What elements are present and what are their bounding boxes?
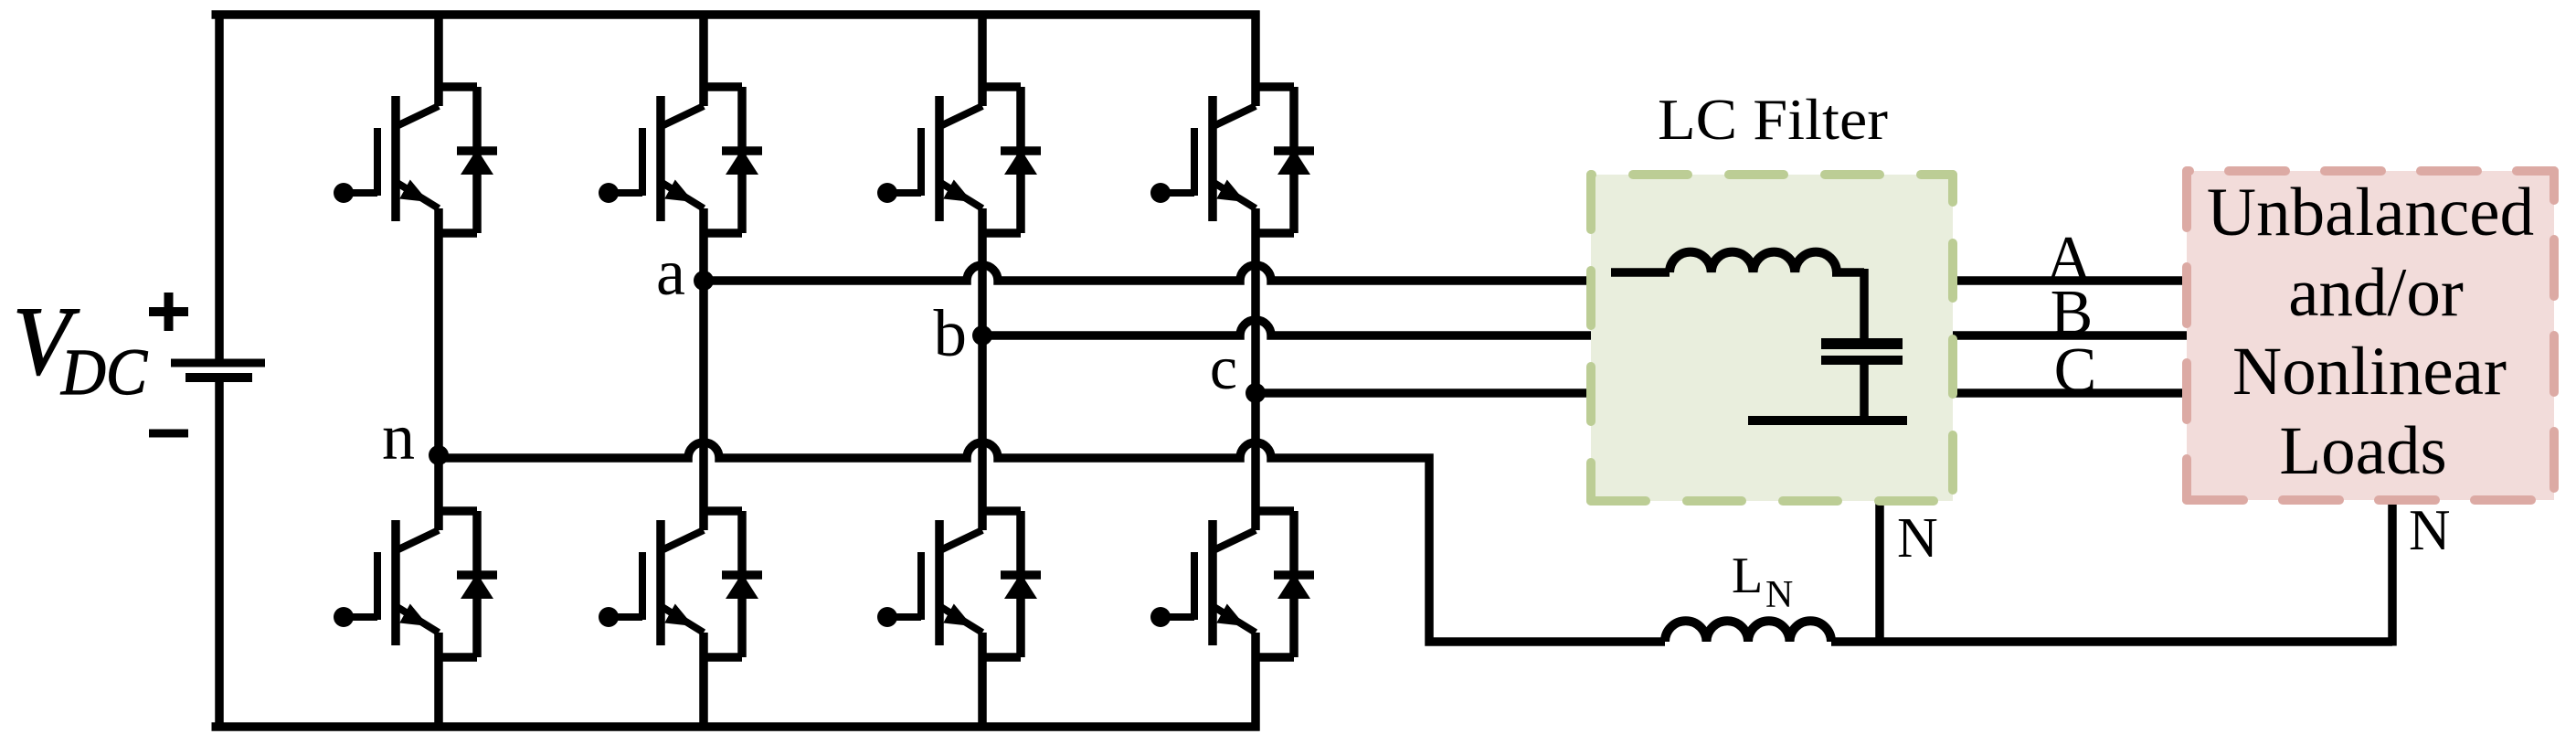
wire: leg 4 emitter drop to bottom bus	[1251, 633, 1260, 731]
svg-text:C: C	[2054, 335, 2097, 406]
diode triangle	[1277, 149, 1310, 175]
collector diagonal	[942, 106, 982, 125]
diode triangle	[461, 573, 493, 599]
node n junction dot	[429, 445, 449, 465]
IGBT switch leg 2 upper with anti-parallel diode	[599, 87, 762, 233]
anti-parallel diode branch	[1256, 87, 1294, 233]
gate bar	[374, 552, 381, 620]
diode cathode bar	[1274, 146, 1314, 155]
svg-text:LC Filter: LC Filter	[1658, 88, 1888, 152]
diode cathode bar	[1274, 570, 1314, 580]
gate lead and terminal dot	[344, 189, 377, 197]
emitter diagonal with arrow	[661, 606, 704, 633]
svg-text:DC: DC	[60, 335, 148, 409]
diode cathode bar	[457, 146, 497, 155]
gate bar	[917, 552, 925, 620]
wire: capacitor to neutral bar	[1860, 364, 1869, 420]
diode triangle	[1004, 573, 1037, 599]
load box fill	[2187, 171, 2554, 500]
wire: leg 4 collector drop from top bus	[1251, 11, 1260, 107]
svg-text:a: a	[656, 236, 685, 309]
wire: leg 3 collector drop from top bus	[978, 11, 987, 107]
emitter diagonal with arrow	[396, 606, 439, 633]
wire: leg 2 midpoint wire between upper and lower IGBT	[699, 208, 708, 530]
wire: phase C stub between LC filter and load box	[1950, 388, 2190, 398]
svg-text:L: L	[1732, 548, 1763, 604]
body bar	[1208, 520, 1217, 645]
body bar	[391, 520, 400, 645]
wire: leg 2 emitter drop to bottom bus	[699, 633, 708, 731]
battery VDC: short negative plate	[186, 373, 252, 382]
wire: leg 3 midpoint wire between upper and lower IGBT	[978, 208, 987, 530]
svg-text:and/or: and/or	[2288, 255, 2464, 331]
svg-text:N: N	[1897, 507, 1938, 569]
wire: filter inductor input lead	[1611, 268, 1670, 277]
filter inductor coil	[1670, 252, 1837, 272]
svg-text:Nonlinear: Nonlinear	[2232, 334, 2507, 410]
gate bar	[639, 128, 646, 196]
body bar	[656, 520, 665, 645]
inductor LN coil	[1665, 621, 1831, 642]
emitter diagonal with arrow	[396, 182, 439, 208]
collector diagonal	[398, 106, 439, 125]
svg-text:c: c	[1210, 333, 1237, 402]
wire: left rail from top bus down to battery positive plate	[215, 11, 224, 360]
diode triangle	[461, 149, 493, 175]
body bar	[391, 96, 400, 221]
gate lead and terminal dot	[609, 613, 642, 621]
wire: bottom DC bus	[212, 722, 1260, 731]
diode cathode bar	[722, 146, 762, 155]
wire: top DC bus	[212, 10, 1260, 19]
emitter diagonal with arrow	[1213, 182, 1256, 208]
svg-text:N: N	[1765, 574, 1793, 616]
body bar	[935, 96, 944, 221]
svg-text:Unbalanced: Unbalanced	[2207, 175, 2534, 250]
body bar	[1208, 96, 1217, 221]
wire: phase B stub between LC filter and load box	[1950, 331, 2190, 340]
collector diagonal	[1215, 106, 1256, 125]
node c junction dot	[1246, 383, 1266, 403]
diode triangle	[1004, 149, 1037, 175]
emitter diagonal with arrow	[939, 182, 982, 208]
anti-parallel diode branch	[982, 87, 1021, 233]
node b junction dot	[972, 325, 992, 346]
wire: leg 1 midpoint wire between upper and lower IGBT	[434, 208, 443, 530]
wire: left rail from battery negative plate down to bottom bus	[215, 381, 224, 731]
gate bar	[1191, 128, 1198, 196]
IGBT switch leg 4 upper with anti-parallel diode	[1150, 87, 1314, 233]
gate bar	[374, 128, 381, 196]
node a junction dot	[694, 271, 714, 291]
anti-parallel diode branch	[439, 87, 477, 233]
gate lead and terminal dot	[887, 189, 921, 197]
wire: leg 4 midpoint wire between upper and lower IGBT	[1251, 208, 1260, 530]
IGBT switch leg 3 upper with anti-parallel diode	[877, 87, 1041, 233]
IGBT switch leg 1 lower with anti-parallel diode	[334, 511, 497, 657]
wire: phase c line from node c to LC filter	[1256, 388, 1595, 398]
battery VDC: long positive plate	[171, 359, 265, 367]
battery polarity minus sign	[149, 430, 188, 438]
gate lead and terminal dot	[887, 613, 921, 621]
wire: filter inductor output lead down to capacitor	[1832, 269, 1864, 339]
gate bar	[639, 552, 646, 620]
wire: LC filter neutral N drop	[1875, 498, 1884, 646]
wire: phase a line from node a to LC filter (hops over legs 3 and 4)	[704, 265, 1595, 281]
svg-text:N: N	[2409, 498, 2451, 562]
collector diagonal	[663, 530, 704, 549]
wire: phase b line from node b to LC filter (hops over leg 4)	[982, 320, 1595, 335]
anti-parallel diode branch	[439, 511, 477, 657]
wire: phase A stub between LC filter and load box	[1950, 276, 2190, 285]
LC filter box fill	[1591, 175, 1953, 501]
filter capacitor plates	[1821, 338, 1903, 349]
wire: neutral n line from node n, hops over legs 2 3 4, down and along bottom to LN inductor	[439, 442, 1665, 642]
IGBT switch leg 1 upper with anti-parallel diode	[334, 87, 497, 233]
load box dashed border	[2187, 171, 2554, 500]
gate bar	[1191, 552, 1198, 620]
body bar	[656, 96, 665, 221]
body bar	[935, 520, 944, 645]
anti-parallel diode branch	[704, 87, 742, 233]
svg-text:n: n	[382, 400, 415, 474]
battery polarity plus sign	[149, 293, 188, 331]
anti-parallel diode branch	[982, 511, 1021, 657]
emitter diagonal with arrow	[661, 182, 704, 208]
gate lead and terminal dot	[609, 189, 642, 197]
wire: leg 3 emitter drop to bottom bus	[978, 633, 987, 731]
wire: leg 1 collector drop from top bus	[434, 11, 443, 107]
diode triangle	[726, 573, 758, 599]
gate lead and terminal dot	[1161, 189, 1194, 197]
wire: neutral line from LN inductor to load box riser	[1831, 500, 2392, 646]
gate lead and terminal dot	[1161, 613, 1194, 621]
collector diagonal	[942, 530, 982, 549]
collector diagonal	[1215, 530, 1256, 549]
diode cathode bar	[1001, 570, 1041, 580]
emitter diagonal with arrow	[1213, 606, 1256, 633]
anti-parallel diode branch	[704, 511, 742, 657]
diode triangle	[1277, 573, 1310, 599]
gate bar	[917, 128, 925, 196]
anti-parallel diode branch	[1256, 511, 1294, 657]
IGBT switch leg 4 lower with anti-parallel diode	[1150, 511, 1314, 657]
filter neutral bar	[1748, 416, 1907, 425]
wire: leg 2 collector drop from top bus	[699, 11, 708, 107]
LC filter dashed border	[1591, 175, 1953, 501]
collector diagonal	[398, 530, 439, 549]
IGBT switch leg 3 lower with anti-parallel diode	[877, 511, 1041, 657]
svg-text:Loads: Loads	[2279, 413, 2446, 489]
diode triangle	[726, 149, 758, 175]
emitter diagonal with arrow	[939, 606, 982, 633]
gate lead and terminal dot	[344, 613, 377, 621]
IGBT switch leg 2 lower with anti-parallel diode	[599, 511, 762, 657]
diode cathode bar	[457, 570, 497, 580]
diode cathode bar	[1001, 146, 1041, 155]
collector diagonal	[663, 106, 704, 125]
svg-text:b: b	[934, 296, 968, 370]
wire: leg 1 emitter drop to bottom bus	[434, 633, 443, 731]
diode cathode bar	[722, 570, 762, 580]
